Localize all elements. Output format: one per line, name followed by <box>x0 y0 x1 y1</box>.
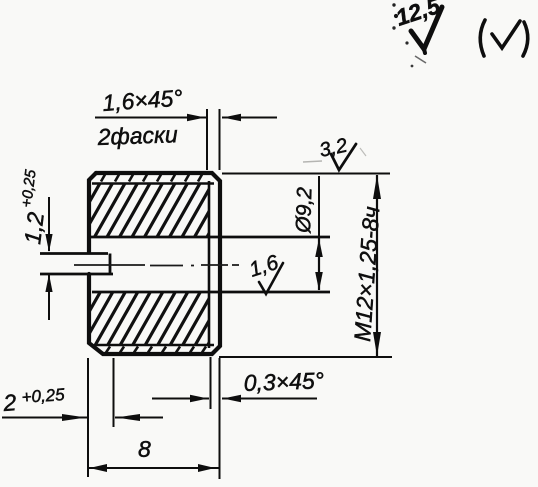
svg-text:Ø9,2: Ø9,2 <box>292 187 317 235</box>
slot outline <box>40 254 113 275</box>
dimension 1,2+0,25 (slot width, left) <box>18 168 53 320</box>
hole top line / extension for d9.2 <box>89 236 330 239</box>
hole bottom line / extension for d9.2 <box>92 291 330 294</box>
hatch top block <box>54 182 238 242</box>
svg-text:+0,25: +0,25 <box>21 385 66 407</box>
chamfer strip dashes bottom <box>106 347 206 353</box>
roughness (v) in parentheses <box>480 20 528 56</box>
svg-text:1,2: 1,2 <box>19 210 49 245</box>
dimension 8 (width, bottom) <box>88 358 220 479</box>
svg-text:8: 8 <box>138 436 151 462</box>
dimension 2+0,25 (slot depth, bottom left) <box>2 358 163 477</box>
dimension 0,3x45 (chamfer, bottom right) <box>152 357 324 409</box>
svg-text:0,3×45°: 0,3×45° <box>243 367 324 396</box>
dimension M12x1,25 (right) <box>219 174 392 358</box>
dimension d9,2 (hole, right) <box>292 176 323 291</box>
dimension 1,6x45 2 chamfers (top) <box>95 84 277 170</box>
inner chamfer line top <box>92 182 214 184</box>
roughness 3,2 (top face) <box>303 135 366 170</box>
hatch bottom block <box>54 292 238 352</box>
chamfer strip dashes top <box>101 175 202 182</box>
roughness 12,5 (general, top right) <box>392 0 444 67</box>
svg-text:2: 2 <box>2 389 18 416</box>
inner chamfer line bottom <box>95 344 214 346</box>
body outline <box>89 173 220 354</box>
svg-text:2фаски: 2фаски <box>96 121 178 150</box>
roughness 1,6 (hole surface) <box>246 251 283 294</box>
centerline <box>74 264 239 267</box>
inner chamfer line right <box>208 181 211 348</box>
